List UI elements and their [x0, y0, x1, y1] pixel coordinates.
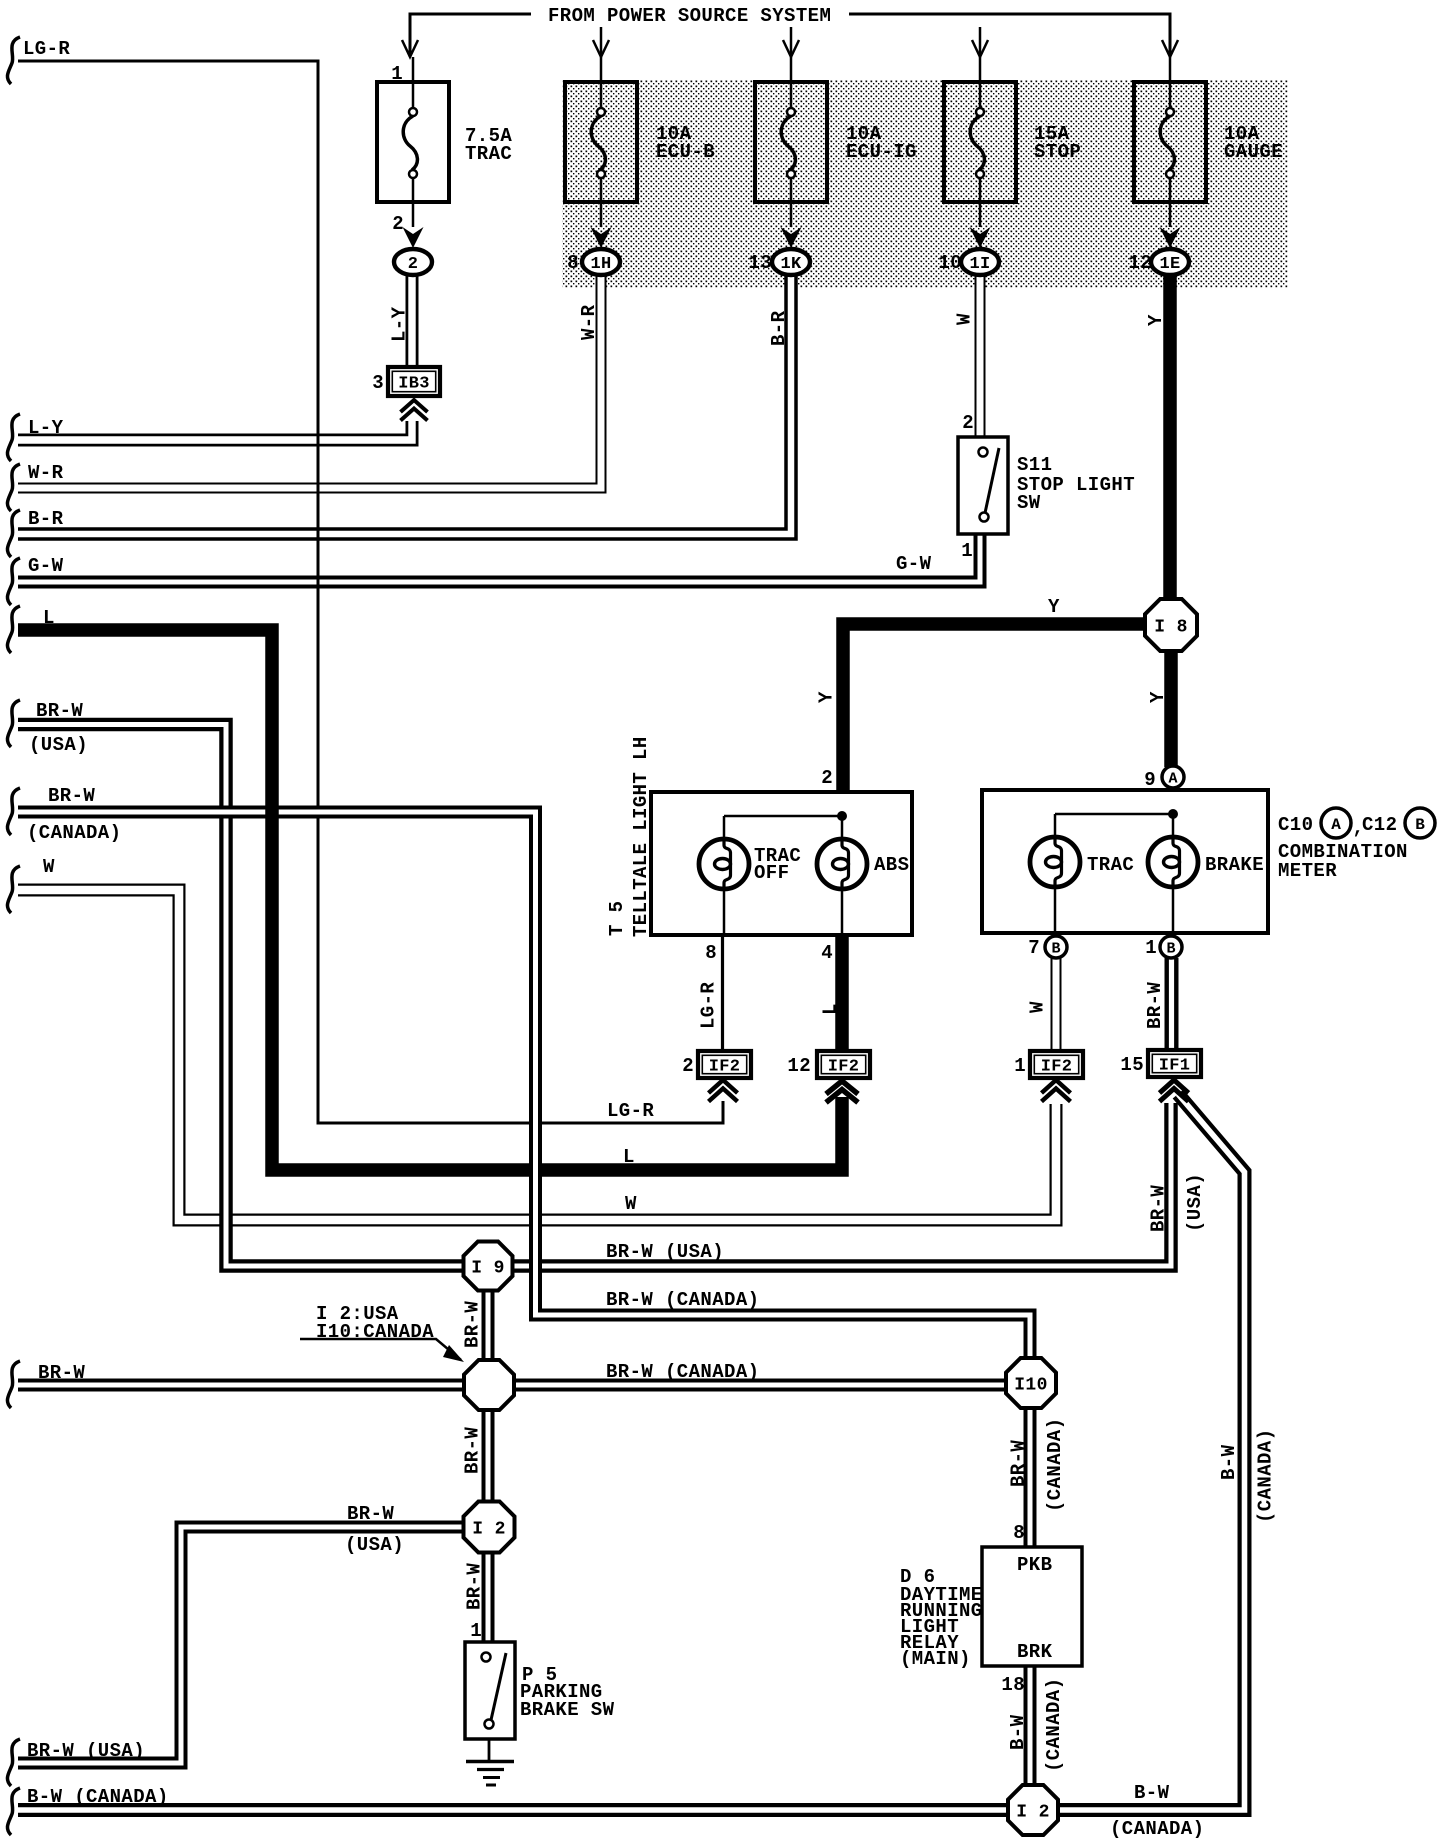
svg-text:IF2: IF2 — [1041, 1058, 1073, 1077]
svg-text:ABS: ABS — [874, 854, 909, 876]
svg-text:B-W: B-W — [1218, 1444, 1240, 1480]
svg-text:BR-W: BR-W — [462, 1301, 484, 1348]
svg-text:Y: Y — [1048, 596, 1060, 618]
svg-text:B: B — [1415, 816, 1425, 834]
svg-text:I 8: I 8 — [1154, 618, 1188, 638]
svg-text:L: L — [43, 607, 55, 629]
svg-text:(CANADA): (CANADA) — [1110, 1818, 1204, 1840]
svg-text:W: W — [1027, 1001, 1049, 1013]
svg-text:C12: C12 — [1362, 814, 1397, 836]
svg-text:2: 2 — [392, 213, 404, 235]
svg-text:W: W — [625, 1193, 637, 1215]
svg-text:13: 13 — [748, 252, 772, 274]
svg-text:A: A — [1331, 816, 1341, 834]
svg-text:2: 2 — [408, 255, 419, 274]
svg-text:FROM POWER SOURCE SYSTEM: FROM POWER SOURCE SYSTEM — [548, 5, 831, 27]
svg-text:1K: 1K — [780, 255, 802, 274]
svg-text:BR-W (USA): BR-W (USA) — [27, 1740, 145, 1762]
svg-text:G-W: G-W — [896, 553, 932, 575]
svg-text:BR-W: BR-W — [1144, 982, 1166, 1029]
svg-text:METER: METER — [1278, 860, 1337, 882]
svg-text:BR-W: BR-W — [38, 1362, 85, 1384]
svg-text:(USA): (USA) — [1184, 1173, 1206, 1232]
svg-text:IF2: IF2 — [709, 1058, 741, 1077]
svg-text:9: 9 — [1144, 769, 1156, 791]
svg-text:1: 1 — [961, 540, 973, 562]
svg-text:1: 1 — [1145, 937, 1157, 959]
svg-text:BR-W: BR-W — [347, 1503, 394, 1525]
svg-text:B-W: B-W — [1007, 1714, 1029, 1750]
svg-text:(CANADA): (CANADA) — [1255, 1429, 1277, 1523]
svg-text:OFF: OFF — [754, 862, 789, 884]
svg-text:IF2: IF2 — [828, 1058, 860, 1077]
svg-text:W: W — [954, 313, 976, 325]
svg-text:(CANADA): (CANADA) — [1044, 1418, 1066, 1512]
svg-text:1: 1 — [391, 63, 403, 85]
svg-text:B-R: B-R — [768, 310, 790, 346]
svg-text:PKB: PKB — [1017, 1554, 1052, 1576]
svg-text:IF1: IF1 — [1159, 1057, 1191, 1076]
svg-text:T 5: T 5 — [606, 901, 628, 936]
svg-text:BR-W: BR-W — [36, 700, 83, 722]
svg-text:IB3: IB3 — [398, 375, 430, 394]
svg-text:L: L — [820, 1003, 842, 1015]
svg-text:12: 12 — [1128, 252, 1152, 274]
svg-text:2: 2 — [821, 767, 833, 789]
svg-text:1: 1 — [470, 1620, 482, 1642]
svg-text:TELLTALE LIGHT LH: TELLTALE LIGHT LH — [630, 736, 652, 937]
svg-text:S11: S11 — [1017, 454, 1052, 476]
svg-text:BR-W (CANADA): BR-W (CANADA) — [606, 1289, 759, 1311]
svg-text:STOP: STOP — [1034, 141, 1081, 163]
svg-text:4: 4 — [821, 942, 833, 964]
svg-text:A: A — [1168, 771, 1177, 788]
svg-text:W-R: W-R — [578, 304, 600, 340]
svg-text:W-R: W-R — [28, 462, 64, 484]
svg-text:Y: Y — [1147, 691, 1169, 703]
svg-text:C10: C10 — [1278, 814, 1313, 836]
svg-text:LG-R: LG-R — [607, 1100, 654, 1122]
svg-text:GAUGE: GAUGE — [1224, 141, 1283, 163]
svg-text:I 2: I 2 — [1016, 1803, 1050, 1823]
svg-text:BR-W: BR-W — [464, 1563, 486, 1610]
svg-text:TRAC: TRAC — [465, 143, 512, 165]
svg-text:2: 2 — [682, 1055, 694, 1077]
svg-text:BR-W (USA): BR-W (USA) — [606, 1241, 724, 1263]
svg-text:L-Y: L-Y — [28, 417, 64, 439]
svg-text:G-W: G-W — [28, 555, 64, 577]
svg-text:1: 1 — [1014, 1055, 1026, 1077]
svg-text:(CANADA): (CANADA) — [1043, 1678, 1065, 1772]
svg-text:8: 8 — [567, 252, 579, 274]
svg-text:ECU-B: ECU-B — [656, 141, 715, 163]
svg-text:18: 18 — [1001, 1674, 1025, 1696]
svg-text:I 9: I 9 — [471, 1259, 505, 1279]
svg-text:BRAKE: BRAKE — [1205, 854, 1264, 876]
svg-text:15: 15 — [1120, 1054, 1144, 1076]
svg-text:BR-W: BR-W — [1008, 1440, 1030, 1487]
svg-text:1H: 1H — [590, 255, 611, 274]
svg-text:B: B — [1166, 941, 1175, 958]
svg-text:1E: 1E — [1159, 255, 1180, 274]
svg-text:(MAIN): (MAIN) — [900, 1648, 971, 1670]
svg-text:2: 2 — [962, 412, 974, 434]
svg-text:TRAC: TRAC — [1087, 854, 1134, 876]
svg-text:B-W: B-W — [1134, 1782, 1170, 1804]
svg-text:7: 7 — [1028, 937, 1040, 959]
svg-text:BR-W: BR-W — [1148, 1185, 1170, 1232]
svg-text:I10: I10 — [1014, 1376, 1048, 1396]
svg-text:1I: 1I — [969, 255, 990, 274]
svg-text:LG-R: LG-R — [698, 982, 720, 1029]
svg-text:BRK: BRK — [1017, 1641, 1053, 1663]
svg-text:B-W (CANADA): B-W (CANADA) — [27, 1786, 169, 1808]
svg-text:12: 12 — [787, 1055, 811, 1077]
svg-text:I 2: I 2 — [472, 1520, 506, 1540]
svg-text:B: B — [1051, 941, 1060, 958]
svg-text:SW: SW — [1017, 492, 1041, 514]
svg-text:Y: Y — [816, 691, 838, 703]
svg-text:BR-W (CANADA): BR-W (CANADA) — [606, 1361, 759, 1383]
svg-text:10: 10 — [938, 252, 962, 274]
svg-text:LG-R: LG-R — [23, 38, 70, 60]
svg-text:L-Y: L-Y — [389, 306, 411, 342]
svg-text:ECU-IG: ECU-IG — [846, 141, 917, 163]
svg-text:W: W — [43, 856, 55, 878]
svg-text:(USA): (USA) — [345, 1534, 404, 1556]
svg-text:BRAKE SW: BRAKE SW — [520, 1699, 615, 1721]
svg-text:8: 8 — [1013, 1522, 1025, 1544]
svg-text:L: L — [623, 1146, 635, 1168]
svg-text:BR-W: BR-W — [462, 1427, 484, 1474]
svg-text:BR-W: BR-W — [48, 785, 95, 807]
svg-text:3: 3 — [372, 372, 384, 394]
svg-text:B-R: B-R — [28, 508, 64, 530]
svg-text:(CANADA): (CANADA) — [27, 822, 121, 844]
svg-text:8: 8 — [705, 942, 717, 964]
svg-text:(USA): (USA) — [29, 734, 88, 756]
svg-text:Y: Y — [1145, 314, 1167, 326]
